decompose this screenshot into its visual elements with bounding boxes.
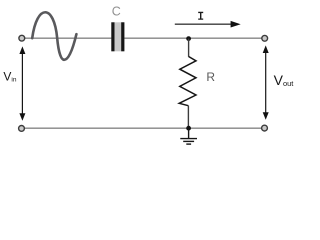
terminal top-right (262, 35, 268, 41)
node bottom junction (186, 126, 191, 131)
wire resistor bottom lead (187, 106, 189, 129)
resistor R zigzag (179, 57, 196, 106)
svg-text:R: R (206, 70, 215, 84)
AC source sine wave (32, 12, 76, 60)
ground (180, 128, 197, 144)
label I (198, 12, 203, 20)
capacitor C1 left plate (111, 22, 114, 51)
capacitor C1 right plate (121, 22, 124, 51)
node top junction (186, 36, 191, 41)
wire bottom horizontal (25, 127, 261, 129)
svg-text:Vin: Vin (3, 69, 16, 83)
current arrow I (175, 21, 241, 28)
capacitor C1 body (111, 22, 124, 51)
Vin measurement arrow (19, 46, 25, 120)
terminal bottom-right (262, 125, 268, 131)
Vout measurement arrow (263, 45, 269, 119)
terminal top-left (19, 35, 25, 41)
wire resistor top lead (188, 39, 190, 57)
svg-text:C: C (112, 5, 121, 19)
svg-text:Vout: Vout (274, 72, 295, 88)
terminal bottom-left (19, 125, 25, 131)
wire top horizontal (25, 37, 262, 39)
